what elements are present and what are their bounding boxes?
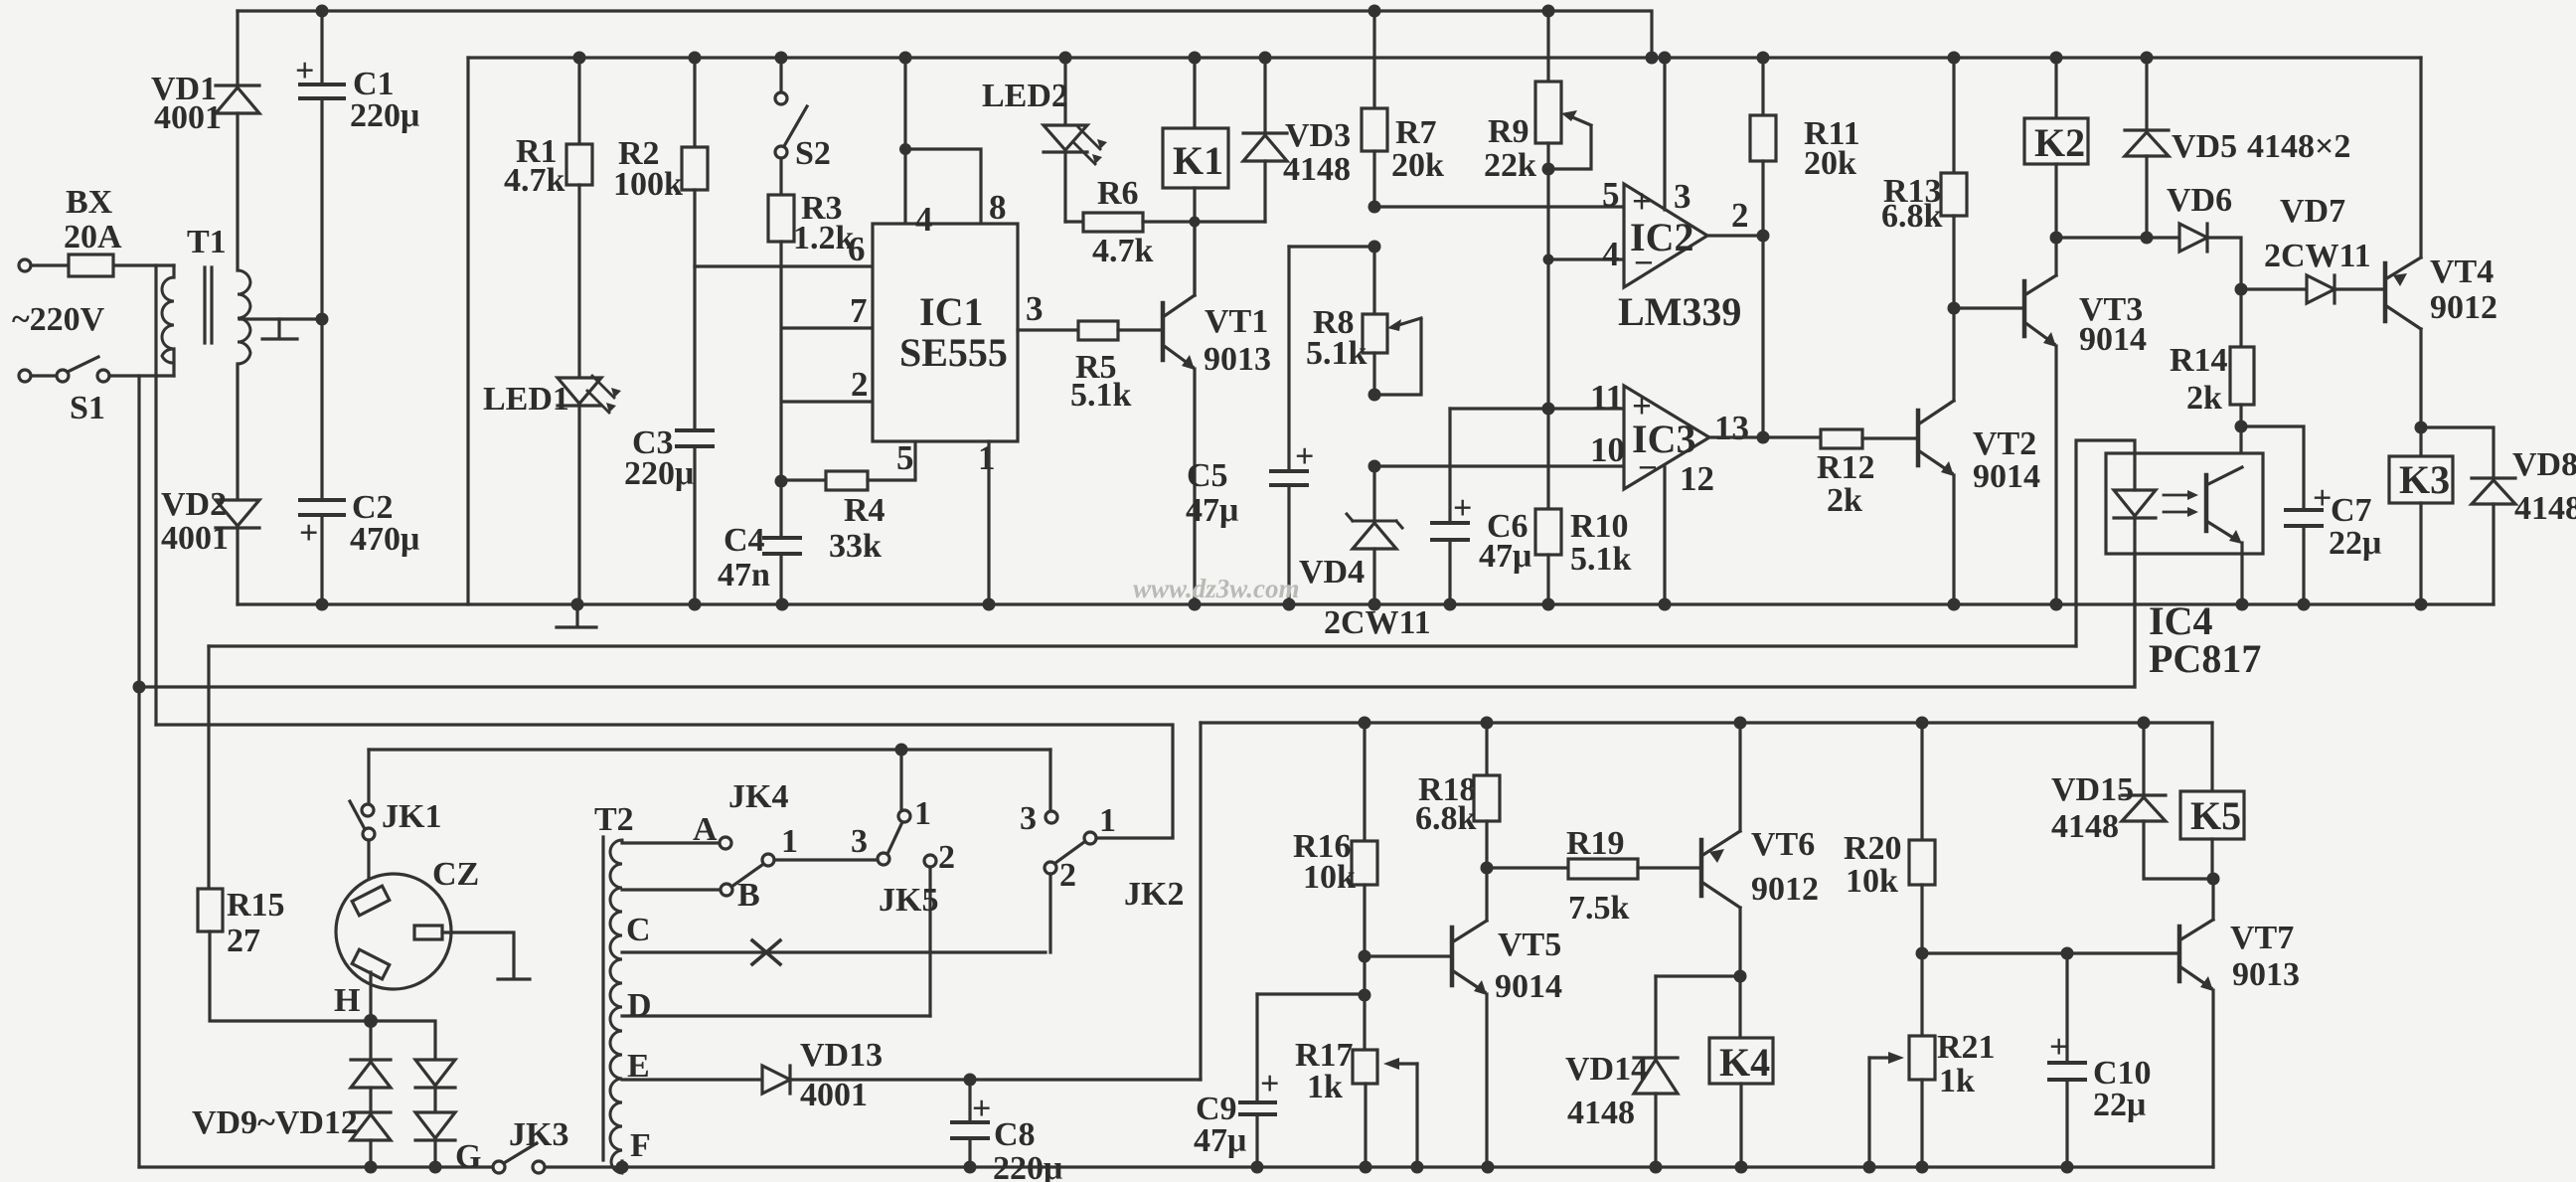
svg-text:VT2: VT2	[1973, 425, 2036, 462]
svg-text:R15: R15	[227, 887, 285, 924]
svg-text:+: +	[2049, 1029, 2068, 1066]
svg-text:B: B	[737, 877, 760, 914]
svg-text:9014: 9014	[2079, 321, 2147, 358]
resistor R7 20k	[1372, 11, 1375, 108]
LED1	[558, 378, 601, 404]
capacitor C9 47u	[1255, 994, 1258, 1102]
wire: VT7 base line	[1922, 951, 2179, 954]
capacitor C5 47u	[1287, 247, 1290, 471]
resistor R16 10k	[1363, 723, 1366, 841]
svg-text:5.1k: 5.1k	[1306, 335, 1368, 372]
svg-text:+: +	[1295, 438, 1314, 475]
svg-text:2: 2	[938, 839, 955, 876]
svg-text:+: +	[1260, 1066, 1279, 1102]
svg-text:220μ: 220μ	[993, 1150, 1062, 1182]
svg-text:33k: 33k	[829, 528, 882, 565]
relay coil K5	[2210, 723, 2213, 791]
svg-text:4148: 4148	[2514, 490, 2576, 527]
svg-text:JK3: JK3	[509, 1116, 568, 1153]
potentiometer R21 1k	[1909, 1036, 1935, 1080]
diode VD7 2CW11	[2241, 287, 2307, 290]
transistor Q6 VT6 9012 (PNP)	[1699, 840, 1704, 896]
svg-text:K5: K5	[2190, 793, 2241, 838]
svg-text:4001: 4001	[154, 99, 222, 136]
wire: bottom common rail	[139, 1165, 2213, 1168]
transistor Q5 VT5 9014	[1450, 928, 1455, 985]
optocoupler IC4 PC817	[2206, 426, 2242, 485]
svg-text:27: 27	[227, 923, 260, 959]
node: center-tap junction	[316, 313, 329, 326]
capacitor C10 22u	[2065, 953, 2068, 1063]
svg-text:VD8: VD8	[2512, 446, 2576, 483]
svg-text:LED1: LED1	[483, 381, 569, 418]
relay coil K3	[2419, 427, 2422, 456]
tap E	[622, 1078, 762, 1081]
svg-text:BX: BX	[66, 184, 113, 221]
svg-text:JK1: JK1	[382, 798, 441, 835]
resistor R1 4.7k	[577, 58, 580, 144]
wire: pin8 feed	[905, 149, 981, 224]
IC U1 SE555	[903, 58, 906, 224]
resistor R12 2k	[1821, 429, 1862, 448]
svg-text:JK5: JK5	[879, 882, 938, 919]
svg-text:47n: 47n	[718, 557, 770, 593]
relay coil K4	[1734, 970, 1747, 983]
svg-text:47μ: 47μ	[1194, 1122, 1246, 1159]
svg-text:A: A	[693, 811, 718, 848]
relay contact JK2	[1048, 750, 1051, 811]
transistor Q2 VT2 9014	[1916, 411, 1921, 465]
wire: JK1/JK5 feed line	[369, 748, 1050, 751]
svg-text:JK2: JK2	[1124, 876, 1184, 913]
wire: pin6 to R2 column	[695, 264, 873, 267]
wire: rail2 left drop to common	[466, 58, 469, 604]
svg-text:9013: 9013	[1204, 341, 1271, 378]
svg-text:+: +	[2313, 480, 2332, 517]
svg-text:6.8k: 6.8k	[1415, 800, 1477, 837]
zener VD4 2CW11	[1372, 466, 1375, 521]
transistor Q3 VT3 9014	[2022, 281, 2027, 336]
svg-text:22μ: 22μ	[2093, 1087, 2146, 1123]
transistor Q4 VT4 9012 (PNP)	[2383, 263, 2388, 321]
relay contact JK5	[878, 853, 889, 865]
wire: IC3 output pin13	[1709, 435, 1821, 438]
relay coil K2	[2054, 58, 2057, 118]
wire: H to right diode string	[371, 1021, 435, 1060]
wire: reference column down to R10	[1546, 169, 1549, 509]
tap A	[622, 841, 720, 844]
svg-text:2k: 2k	[1827, 482, 1862, 519]
svg-text:9014: 9014	[1973, 458, 2040, 495]
tap B	[622, 888, 721, 891]
svg-text:PC817: PC817	[2149, 636, 2261, 681]
svg-text:T2: T2	[594, 801, 634, 838]
transistor Q7 VT7 9013	[2177, 927, 2182, 981]
svg-text:2CW11: 2CW11	[2264, 238, 2371, 274]
svg-text:IC3: IC3	[1632, 417, 1695, 461]
transistor Q1 VT1 9013	[1161, 303, 1166, 360]
svg-text:5: 5	[896, 438, 914, 477]
resistor R14 2k	[2239, 289, 2242, 347]
svg-text:10k: 10k	[1846, 863, 1898, 900]
wire: secondary center tap	[240, 317, 322, 320]
relay contact JK1	[367, 750, 370, 804]
svg-text:6.8k: 6.8k	[1881, 198, 1943, 235]
wire: VT2 collector to VT3 base	[1954, 306, 2024, 309]
diode VD8 4148	[2472, 476, 2515, 479]
svg-text:~220V: ~220V	[12, 301, 105, 338]
svg-text:S1: S1	[70, 390, 105, 426]
svg-text:3: 3	[851, 823, 868, 860]
svg-text:6: 6	[848, 230, 866, 268]
diode VD3 4148	[1263, 58, 1266, 133]
wire: DC riser to driver rail	[1199, 723, 1202, 1080]
node: VD6/R14/VD7	[2235, 283, 2248, 296]
svg-text:22k: 22k	[1484, 147, 1536, 184]
svg-text:7.5k: 7.5k	[1568, 890, 1630, 927]
switch S1	[31, 374, 57, 377]
svg-text:R10: R10	[1570, 508, 1629, 545]
svg-text:C8: C8	[994, 1116, 1036, 1153]
ground symbol	[557, 604, 596, 627]
wire: node to C5	[1289, 245, 1374, 248]
op-amp IC3 (LM339)	[1624, 386, 1709, 489]
svg-text:C5: C5	[1187, 457, 1228, 494]
svg-text:VD5: VD5	[2172, 128, 2237, 165]
wire: top +V rail1	[238, 11, 1652, 58]
svg-text:R19: R19	[1566, 825, 1625, 862]
wire: common ground rail of top section	[238, 602, 2494, 605]
svg-text:VD4: VD4	[1299, 554, 1365, 591]
svg-text:4148: 4148	[1567, 1095, 1635, 1131]
svg-text:E: E	[627, 1048, 650, 1085]
svg-text:1k: 1k	[1307, 1069, 1343, 1105]
capacitor C6 47u	[1448, 409, 1451, 523]
svg-text:S2: S2	[795, 135, 831, 172]
fuse BX 20A	[31, 263, 174, 266]
diode VD1 4001	[236, 11, 239, 85]
resistor R4 33k	[781, 478, 826, 481]
svg-text:VT6: VT6	[1751, 826, 1815, 863]
node: K1/R6/VD3 junction	[1190, 217, 1201, 228]
diode VD2 4001	[236, 364, 239, 500]
resistor R3 1.2k	[779, 158, 782, 195]
svg-text:5: 5	[1602, 175, 1620, 214]
wire: bottom driver rail	[1201, 721, 2212, 724]
wire: mains drop A (fuse side)	[154, 265, 157, 725]
svg-text:4.7k: 4.7k	[1092, 233, 1154, 269]
svg-text:LM339: LM339	[1618, 289, 1741, 334]
svg-text:5.1k: 5.1k	[1570, 541, 1632, 578]
svg-text:VD14: VD14	[1565, 1051, 1648, 1088]
svg-text:4: 4	[1602, 235, 1620, 273]
svg-text:VD9~VD12: VD9~VD12	[192, 1104, 358, 1141]
resistor R18 6.8k	[1485, 723, 1488, 775]
svg-text:VT7: VT7	[2230, 920, 2294, 956]
resistor R13 6.8k	[1952, 58, 1955, 173]
svg-text:100k: 100k	[613, 166, 683, 203]
svg-text:R20: R20	[1844, 830, 1902, 867]
svg-text:4148×2: 4148×2	[2247, 128, 2350, 165]
potentiometer R9 22k	[1546, 11, 1549, 82]
svg-text:R7: R7	[1395, 114, 1437, 151]
svg-text:10: 10	[1590, 430, 1625, 469]
svg-text:H: H	[334, 982, 360, 1019]
resistor R5 5.1k	[1078, 321, 1118, 340]
resistor R15 27	[207, 646, 210, 889]
capacitor C4 47n	[779, 480, 782, 538]
svg-text:VD15: VD15	[2051, 771, 2134, 808]
switch S2	[779, 58, 782, 92]
resistor R19 7.5k	[1487, 866, 1568, 869]
svg-text:VD7: VD7	[2280, 193, 2345, 230]
svg-text:11: 11	[1590, 378, 1623, 417]
svg-text:9012: 9012	[1751, 871, 1819, 908]
diodes VD9~VD12	[369, 1021, 372, 1060]
resistor R11 20k	[1761, 58, 1764, 115]
svg-text:K3: K3	[2399, 457, 2450, 502]
svg-text:R21: R21	[1937, 1029, 1996, 1066]
wire: node to IC2 pin5	[1374, 205, 1624, 208]
svg-text:1: 1	[1099, 802, 1116, 839]
svg-text:R12: R12	[1817, 449, 1875, 486]
svg-text:1.2k: 1.2k	[793, 220, 855, 256]
zener VD14 4148	[1656, 974, 1740, 977]
svg-text:CZ: CZ	[432, 856, 479, 893]
svg-text:IC1: IC1	[919, 289, 983, 334]
wire: VT4 collector node	[2415, 422, 2428, 434]
node: R4/C4 junction	[775, 475, 788, 488]
node: K5/VD15/VT7	[2207, 873, 2220, 886]
svg-text:8: 8	[989, 188, 1007, 227]
capacitor C3 220u	[677, 430, 713, 446]
svg-text:9012: 9012	[2430, 289, 2497, 326]
wire: K2/VD5 node bus	[2056, 236, 2179, 239]
diode VD6	[2179, 224, 2207, 252]
center-tap stub symbol	[262, 319, 297, 339]
svg-text:+: +	[299, 515, 318, 552]
relay contact JK4	[731, 865, 762, 887]
resistor R20 10k	[1920, 723, 1923, 840]
wire: +V rail2	[468, 56, 2421, 59]
svg-text:2CW11: 2CW11	[1324, 604, 1431, 641]
svg-text:20k: 20k	[1391, 147, 1444, 184]
svg-text:4001: 4001	[161, 520, 229, 557]
svg-text:T1: T1	[187, 224, 227, 260]
svg-text:SE555: SE555	[899, 330, 1008, 375]
wire: comparator output bus	[1761, 236, 1764, 437]
svg-text:470μ: 470μ	[350, 521, 419, 558]
svg-text:4.7k: 4.7k	[504, 162, 565, 199]
svg-text:3: 3	[1674, 177, 1691, 216]
node: R14/C7/opto	[2235, 421, 2248, 433]
svg-text:C: C	[626, 912, 651, 948]
svg-text:1k: 1k	[1939, 1063, 1975, 1099]
svg-text:20A: 20A	[64, 219, 122, 255]
svg-text:R14: R14	[2170, 342, 2228, 379]
svg-text:13: 13	[1714, 409, 1749, 447]
svg-text:K1: K1	[1173, 138, 1223, 183]
svg-text:220μ: 220μ	[624, 455, 694, 492]
node: R18/R19/VT5	[1481, 862, 1494, 875]
junction dots on rail1	[316, 5, 1555, 18]
svg-text:K4: K4	[1719, 1040, 1770, 1085]
potentiometer R8 5.1k	[1372, 247, 1375, 314]
svg-text:VT4: VT4	[2430, 253, 2494, 290]
svg-text:www.dz3w.com: www.dz3w.com	[1133, 574, 1300, 603]
wire: mains feed line to JK2	[156, 725, 1173, 837]
LED2	[1063, 58, 1066, 125]
diode VD5 4148	[2145, 58, 2148, 130]
svg-text:VD3: VD3	[1285, 117, 1351, 154]
wire: JK4-1 to JK5-3	[774, 858, 878, 861]
svg-text:3: 3	[1026, 289, 1044, 328]
svg-text:2: 2	[1731, 196, 1749, 235]
diode VD13 4001	[762, 1066, 790, 1094]
svg-text:R6: R6	[1097, 175, 1139, 212]
wire: R9 node to IC2 pin4	[1548, 257, 1624, 260]
svg-text:220μ: 220μ	[350, 97, 419, 134]
terminal circles 220V input	[19, 259, 31, 271]
node: C9 tap	[1359, 989, 1371, 1002]
svg-text:47μ: 47μ	[1479, 538, 1531, 575]
svg-text:4148: 4148	[2051, 808, 2119, 845]
svg-text:IC2: IC2	[1630, 215, 1693, 259]
svg-text:7: 7	[850, 291, 868, 330]
svg-text:VD2: VD2	[161, 486, 227, 523]
diode VD15 4148	[2142, 723, 2145, 795]
socket CZ	[367, 840, 370, 893]
switch JK3	[493, 1161, 505, 1173]
capacitor C1 220u	[320, 11, 323, 84]
wire: VT5 base	[1365, 954, 1452, 957]
svg-text:9014: 9014	[1495, 968, 1562, 1005]
svg-text:VT1: VT1	[1205, 303, 1268, 340]
svg-text:4148: 4148	[1283, 151, 1351, 188]
svg-text:D: D	[627, 987, 652, 1024]
svg-text:2: 2	[1059, 857, 1076, 894]
svg-text:1: 1	[781, 823, 798, 860]
wire: pin2 to R3 column	[782, 400, 873, 403]
svg-text:1: 1	[914, 795, 931, 832]
svg-text:+: +	[1453, 490, 1472, 527]
svg-text:R4: R4	[844, 492, 885, 529]
svg-text:20k: 20k	[1804, 145, 1856, 182]
svg-text:9013: 9013	[2232, 956, 2300, 993]
svg-text:+: +	[295, 53, 314, 89]
svg-text:C7: C7	[2331, 492, 2372, 529]
tap D	[622, 1014, 930, 1017]
svg-text:JK4: JK4	[728, 778, 788, 815]
svg-text:R9: R9	[1488, 113, 1529, 150]
svg-text:VD13: VD13	[800, 1037, 883, 1074]
resistor R6 4.7k	[1065, 220, 1083, 223]
capacitor C8 220u	[964, 1074, 977, 1087]
svg-text:VD6: VD6	[2167, 182, 2232, 219]
svg-text:10k: 10k	[1303, 859, 1356, 896]
wire: pin3 output	[1018, 328, 1078, 331]
wire: pin7 to R3 column	[782, 326, 873, 329]
svg-text:4: 4	[915, 200, 933, 239]
svg-text:2k: 2k	[2186, 380, 2222, 417]
svg-text:VT5: VT5	[1498, 927, 1561, 963]
wire: sense line to IC4 anode	[209, 644, 2076, 647]
svg-text:LED2: LED2	[982, 78, 1068, 114]
svg-text:+: +	[972, 1091, 991, 1127]
potentiometer R17 1k	[1363, 995, 1366, 1050]
op-amp IC2 (LM339)	[1624, 184, 1707, 287]
svg-text:K2: K2	[2034, 120, 2085, 165]
wire: VD4 node to IC3 pin10	[1374, 464, 1624, 467]
wire: IC2 output pin2	[1707, 234, 1763, 237]
node H	[369, 972, 372, 1021]
svg-text:22μ: 22μ	[2329, 525, 2381, 562]
svg-text:4001: 4001	[800, 1077, 868, 1113]
junction dots on rail2	[573, 52, 2154, 65]
wire: IC4 cathode return line	[139, 554, 2135, 687]
svg-text:C4: C4	[724, 522, 765, 559]
resistor R2 100k	[693, 58, 696, 147]
junction dots on ground rail	[316, 598, 2428, 611]
tap C with cross mark	[622, 950, 1046, 953]
svg-text:G: G	[455, 1138, 481, 1175]
svg-text:3: 3	[1020, 800, 1037, 837]
capacitor C7 22u	[2241, 426, 2304, 510]
svg-text:5.1k: 5.1k	[1070, 377, 1132, 414]
svg-text:2: 2	[851, 365, 869, 404]
svg-text:12: 12	[1680, 459, 1714, 498]
wire: pin1 to ground rail	[987, 441, 990, 604]
svg-text:F: F	[630, 1127, 651, 1164]
svg-text:1: 1	[978, 438, 996, 477]
svg-text:47μ: 47μ	[1186, 492, 1238, 529]
tap F	[620, 1161, 623, 1167]
relay coil K1	[1193, 58, 1196, 128]
wire: mains drop B (S1 side)	[137, 376, 140, 1167]
capacitor C2 470u	[320, 319, 323, 500]
wire: C6 to IC3 pin11	[1450, 407, 1624, 410]
resistor R10 5.1k	[1535, 509, 1561, 555]
